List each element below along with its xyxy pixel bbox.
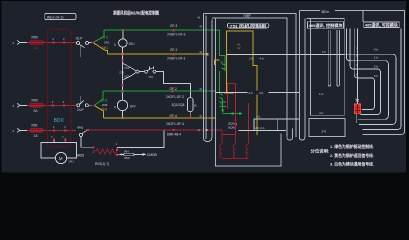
svg-text:2-b: 2-b [256, 115, 261, 119]
overload component OL [354, 104, 360, 114]
red drop to coils [235, 84, 237, 135]
svg-text:2A: 2A [34, 134, 39, 138]
wire to braking resistor [81, 146, 94, 148]
connector J2 [17, 103, 27, 107]
svg-text:4-b: 4-b [259, 91, 264, 95]
right outer top [299, 11, 404, 130]
green contact mark 2 [239, 112, 241, 114]
fuse F1 [30, 41, 44, 45]
label BDx [320, 8, 335, 13]
svg-text:a1: a1 [220, 60, 224, 64]
svg-text:R50: R50 [32, 36, 38, 40]
svg-text:3Q1/2Q8: 3Q1/2Q8 [172, 103, 185, 107]
header label box mid [227, 23, 269, 28]
BDX distribution rectangle [47, 29, 71, 147]
red bottom rail [222, 130, 236, 135]
svg-text:2-b 4-b: 2-b 4-b [255, 126, 265, 130]
svg-text:3. 白色为模块通用信号线.: 3. 白色为模块通用信号线. [330, 160, 374, 166]
wire row C red [27, 129, 76, 131]
contact YDJ [145, 70, 148, 73]
contact K-C row C [78, 125, 88, 147]
YELLOW TRUNK 1 y=54.2 [108, 53, 208, 55]
green branch wire row B [95, 91, 103, 105]
capsule M2 bottom [287, 129, 293, 141]
capsule M1 [203, 14, 212, 142]
LEFT INPUT ROW B y=105.3 [13, 98, 77, 112]
svg-text:YH1: YH1 [102, 46, 108, 50]
OL grid [354, 104, 360, 114]
svg-text:OLP: OLP [76, 36, 84, 40]
inner left vertical [214, 18, 216, 134]
svg-text:b2: b2 [238, 46, 242, 50]
green branch wire row A [94, 30, 104, 42]
svg-text:8M28: 8M28 [76, 154, 84, 158]
node on green trunk2 above circle B [121, 90, 123, 92]
coil KM3 [246, 135, 248, 159]
svg-text:1RV: 1RV [130, 104, 137, 108]
svg-text:2R1: 2R1 [104, 41, 110, 45]
white row y92.5 [215, 92, 299, 94]
red branch right [248, 103, 250, 135]
white row y130.5 [238, 130, 286, 132]
svg-text:4|: 4| [198, 128, 201, 132]
svg-text:YH2: YH2 [101, 107, 107, 111]
wire row B red [27, 104, 77, 106]
svg-text:1. 绿色为锅炉驱动控制线.: 1. 绿色为锅炉驱动控制线. [330, 143, 374, 149]
node E2 [121, 84, 123, 86]
green lower drop [219, 71, 221, 93]
svg-text:0-b: 0-b [374, 47, 379, 51]
capsule M1 inner line [205, 16, 207, 140]
red contact mark [235, 123, 237, 125]
white vert x278 [277, 119, 279, 131]
svg-text:GF-2: GF-2 [170, 87, 177, 91]
arrowhead [143, 153, 147, 156]
node D2 [64, 138, 66, 140]
vertical link circleA-circleB [121, 48, 123, 100]
svg-text:YDJ: YDJ [148, 75, 154, 79]
svg-text:YD1: YD1 [124, 66, 130, 70]
green drop path [220, 30, 226, 71]
node C5 white [206, 129, 208, 131]
loop2 [346, 29, 388, 120]
white row y118.8 [254, 119, 299, 131]
svg-text:05A: 05A [124, 156, 129, 160]
outer box top [203, 14, 296, 138]
loop4 [354, 29, 374, 110]
svg-text:4|: 4| [199, 50, 202, 54]
svg-text:CH2: CH2 [101, 98, 108, 102]
node on green trunk above circle A [122, 29, 124, 31]
svg-text:1A: 1A [34, 46, 39, 50]
return wire W1 [117, 131, 164, 148]
svg-text:R02(1|-7): R02(1|-7) [95, 162, 109, 166]
fuse F3 [30, 128, 44, 132]
fuse F2 [30, 103, 44, 107]
contact OLP-A [76, 36, 92, 47]
node Y1b yellow [207, 53, 209, 55]
svg-text:2-b: 2-b [249, 91, 254, 95]
node on yellow trunk2 below circle B [121, 117, 123, 119]
svg-text:2-b: 2-b [374, 64, 379, 68]
svg-text:BDx: BDx [322, 9, 330, 14]
wire to contact2 [139, 71, 145, 73]
svg-text:24GF1-GF-1: 24GF1-GF-1 [167, 56, 185, 60]
svg-text:2-b: 2-b [322, 129, 327, 133]
node C1 [53, 129, 55, 131]
node C2 [64, 129, 66, 131]
YELLOW TRUNK 2 y=118.1 [104, 117, 216, 119]
relay capsule XQ [188, 98, 194, 112]
svg-text:R51: R51 [32, 123, 38, 127]
relay select cluster [119, 59, 190, 97]
capsule R0 [299, 11, 305, 141]
node G2a [171, 90, 173, 92]
fork lower branch [122, 73, 136, 80]
svg-text:3-b: 3-b [374, 74, 379, 78]
svg-text:CH1: CH1 [102, 36, 109, 40]
contact OLP-B [77, 100, 92, 112]
svg-text:1-b: 1-b [374, 55, 379, 59]
node Y2a [171, 117, 173, 119]
svg-text:24GF1-GF-3: 24GF1-GF-3 [167, 32, 185, 36]
LEFT INPUT ROW C y=130.3 [13, 123, 77, 137]
svg-text:分位说明:: 分位说明: [311, 148, 330, 154]
svg-text:485通讯, 控制模块: 485通讯, 控制模块 [309, 23, 343, 28]
svg-text:M: M [59, 156, 63, 161]
section bottom edge [363, 129, 405, 134]
node A2 [63, 41, 65, 43]
node B3 split [93, 104, 95, 106]
pivot circle [136, 70, 139, 73]
svg-text:1|: 1| [114, 43, 117, 47]
coil box [216, 134, 282, 167]
green contact marks lateral [232, 112, 234, 114]
node D1 [53, 138, 55, 140]
svg-text:24GF1-GF-2: 24GF1-GF-2 [166, 95, 184, 99]
comp feed vertical [356, 29, 357, 123]
fork upper branch [122, 63, 136, 71]
node B2 [63, 104, 65, 106]
yellow bottom stub [225, 92, 234, 94]
inner capsule right 2 [337, 30, 340, 86]
svg-text:GF-1: GF-1 [170, 48, 177, 52]
divider stub between headers [362, 11, 364, 23]
node C4 [172, 129, 174, 131]
LEFT INPUT ROW A y=42.5 [13, 36, 78, 50]
node A3 split [92, 41, 94, 43]
svg-text:2-b: 2-b [249, 56, 254, 60]
svg-text:4|: 4| [199, 114, 202, 118]
green ticks 2 [220, 94, 223, 100]
node B1 [52, 104, 54, 106]
svg-text:8M2: 8M2 [78, 125, 84, 129]
labels on y92.5 [248, 91, 269, 95]
connector J1 [17, 41, 27, 45]
green lower drop2 [222, 99, 224, 111]
svg-text:CMDB: CMDB [147, 153, 158, 157]
green lateral wire [223, 111, 242, 114]
svg-text:4|: 4| [199, 87, 202, 91]
svg-text:GF-4: GF-4 [170, 114, 177, 118]
node E1 [121, 59, 123, 61]
header label box B [364, 22, 400, 28]
svg-text:2. 黄色为锅炉返回信号线.: 2. 黄色为锅炉返回信号线. [330, 152, 374, 158]
svg-text:R50: R50 [32, 98, 38, 102]
motor circle 1RU (row A) [119, 39, 127, 47]
coil KM2 [233, 135, 235, 159]
svg-text:7-b: 7-b [322, 50, 327, 54]
wire YDJ out [156, 72, 191, 98]
wire row A red [27, 42, 77, 44]
fuse RH [124, 153, 135, 156]
stub circle A to green [122, 30, 124, 38]
GREEN TRUNK 1 y=30.2 [104, 29, 220, 31]
svg-text:75| 风机控制柜: 75| 风机控制柜 [230, 23, 267, 28]
braking resistor RB zigzag [95, 149, 117, 154]
svg-text:D8R-4B-4: D8R-4B-4 [167, 132, 181, 136]
motor circle 1RV (row B) [117, 100, 127, 110]
yellow branch wire row A [94, 43, 108, 54]
node A1 [52, 41, 54, 43]
yellow rect loop [227, 31, 258, 135]
white row 2-b 4-b (y54.4 long) [227, 53, 344, 55]
inner capsule right [328, 30, 331, 86]
motor feed stubs [54, 141, 65, 143]
linkage stub B [80, 96, 82, 103]
node R-right top [116, 149, 118, 151]
svg-text:YD2: YD2 [124, 74, 130, 78]
connector J3 [17, 128, 27, 132]
motor loop box [41, 143, 77, 158]
coil bottom rail [222, 157, 249, 159]
svg-text:BDX: BDX [54, 118, 65, 124]
svg-text:1RJ: 1RJ [68, 160, 74, 164]
red control path [227, 84, 235, 109]
breaker ticks above comp [356, 99, 359, 102]
green end node [222, 109, 224, 111]
svg-text:4|: 4| [198, 16, 201, 20]
wire fuse feeder [117, 153, 124, 155]
node R-left top [93, 146, 95, 148]
svg-text:某暖风机组M1/M2配电控制图: 某暖风机组M1/M2配电控制图 [112, 10, 159, 17]
loop0 outer [363, 29, 401, 130]
svg-text:7#炉: 7#炉 [243, 13, 251, 18]
green contact ticks [222, 64, 226, 70]
coil KM1 [220, 130, 222, 159]
box L [309, 119, 345, 137]
stub XQ to yellow2 [189, 112, 191, 118]
svg-text:24GF1-GF-4: 24GF1-GF-4 [166, 122, 184, 126]
inner box top [212, 18, 287, 137]
node on yellow trunk below circle A [121, 53, 123, 55]
node G1a [173, 29, 175, 31]
svg-text:2R8: 2R8 [102, 103, 108, 107]
svg-text:5A: 5A [34, 109, 39, 113]
svg-text:OLP: OLP [77, 108, 85, 112]
svg-text:1-b: 1-b [319, 92, 324, 96]
yellow branch wire row B [95, 106, 104, 118]
window frame background [0, 0, 409, 177]
svg-text:1RU: 1RU [128, 42, 135, 46]
tick fuse feeder [121, 153, 122, 156]
svg-text:1|: 1| [114, 105, 117, 109]
svg-text:485通讯, 可控模块: 485通讯, 可控模块 [365, 23, 398, 28]
stub circle B to yellow trunk2 [122, 111, 124, 119]
wire row C out red [89, 129, 222, 131]
yellow tick near capsule [214, 60, 220, 65]
node C3 [87, 129, 89, 131]
motor M1 circle [55, 152, 66, 163]
loop3 [350, 29, 380, 115]
GREEN TRUNK 2 y=91.2 [103, 90, 215, 92]
svg-text:RH: RH [124, 150, 128, 154]
svg-text:WpJ (4-1): WpJ (4-1) [47, 15, 64, 19]
node Y1a [173, 53, 175, 55]
label box WpJ [45, 14, 76, 20]
node XQ bottom [189, 117, 191, 119]
wire fuse out with arrow [134, 153, 142, 155]
drawing canvas [2, 1, 407, 173]
node R-right bottom [116, 154, 118, 156]
svg-text:GF-3: GF-3 [170, 24, 177, 28]
green mini box [220, 102, 226, 107]
loop1 right [344, 54, 396, 124]
svg-text:4-b: 4-b [260, 56, 265, 60]
box U [306, 19, 344, 116]
header label box A [308, 22, 344, 28]
svg-text:(6Q8): (6Q8) [228, 125, 235, 129]
svg-text:4-b: 4-b [319, 111, 324, 115]
stub circle B to green trunk2 [122, 91, 124, 100]
linkage stub A [79, 45, 81, 57]
svg-text:4|: 4| [199, 25, 202, 29]
